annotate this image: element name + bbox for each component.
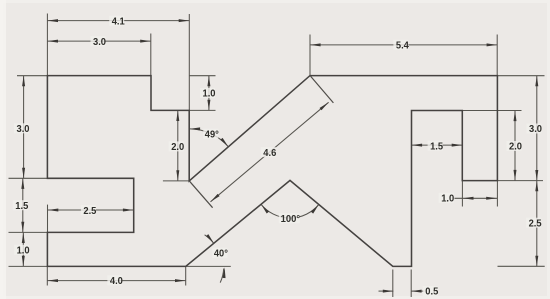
dim line 4.1	[47, 20, 189, 22]
arrows 40 deg	[206, 234, 215, 244]
ext line bottom right horizontal for 2.5	[498, 265, 545, 267]
ext line top left horizontal for left 3.0	[17, 75, 47, 77]
arrows 3.0 right	[535, 76, 538, 87]
ext line x=189 for 4.1	[188, 14, 190, 110]
ext tick for 2.0 step bottom	[163, 180, 189, 182]
svg-text:1.0: 1.0	[203, 89, 216, 100]
dim line 1.0 right	[455, 197, 498, 199]
dim line 4.0	[47, 280, 185, 282]
arrows 4.1	[47, 19, 58, 22]
ext line mid right horizontal for 3.0/2.5	[498, 180, 544, 182]
svg-text:0.5: 0.5	[425, 287, 438, 298]
arrows 1.0 right	[463, 197, 474, 200]
svg-text:2.0: 2.0	[509, 142, 522, 153]
dim line 1.0 left	[22, 232, 24, 266]
arrows 4.0	[47, 279, 58, 282]
ext line left slot bottom	[9, 231, 48, 233]
ext line x=310 for 5.4	[309, 35, 311, 76]
dim line 1.0 step	[208, 76, 210, 111]
ext line below notch for right 1.0	[461, 181, 463, 207]
dim line 0.5 left segment	[379, 290, 394, 292]
svg-text:1.0: 1.0	[17, 246, 30, 257]
ext line right of V corner for 40 deg	[186, 265, 231, 267]
svg-text:2.5: 2.5	[529, 218, 542, 229]
arrows 4.6	[210, 194, 220, 203]
dim line 2.0 right	[514, 111, 516, 181]
svg-text:1.5: 1.5	[430, 141, 443, 152]
arrows 3.0 top	[47, 40, 58, 43]
dim arc 100 deg	[261, 204, 319, 218]
dim line 4.6	[211, 102, 329, 202]
dim line 3.0 top	[47, 40, 150, 42]
svg-text:1.5: 1.5	[15, 201, 28, 212]
svg-text:2.0: 2.0	[171, 142, 184, 153]
svg-text:3.0: 3.0	[17, 124, 30, 135]
svg-text:2.5: 2.5	[83, 206, 96, 217]
arrows 0.5	[383, 290, 394, 293]
dim line 3.0 right	[536, 76, 538, 181]
dim line 3.0 left	[23, 76, 25, 179]
ext line 0.5 right	[410, 270, 412, 298]
svg-text:49°: 49°	[205, 130, 219, 141]
ext line x=151 for top 3.0	[150, 34, 152, 76]
ext line step top for 1.0	[190, 75, 216, 77]
ext line notch top for right 2.0	[462, 110, 521, 112]
ext line left slot top	[9, 177, 48, 179]
dim line 2.5 right	[536, 181, 538, 267]
arrows 2.0 right	[514, 111, 517, 122]
ext line 0.5 left	[392, 270, 394, 298]
dim line 5.4	[310, 44, 497, 46]
ext line 4.6 lower (perpendicular)	[190, 181, 213, 207]
dim line 1.5 left	[22, 178, 24, 232]
arrows 3.0 left	[22, 76, 25, 87]
dim line 1.5 right	[412, 144, 463, 146]
arrows 1.5 right	[412, 144, 423, 147]
arrows 1.0 step	[207, 76, 210, 87]
svg-text:100°: 100°	[281, 214, 301, 225]
arrows 100 deg	[260, 203, 269, 213]
dim arc 40 deg upper	[205, 235, 214, 243]
arrows 1.0 left	[22, 232, 25, 243]
svg-text:4.6: 4.6	[263, 148, 276, 159]
arrows 2.0 step	[176, 110, 179, 121]
svg-text:4.0: 4.0	[110, 276, 123, 287]
arrows 5.4	[310, 43, 321, 46]
dim arc 40 deg lower	[220, 269, 224, 283]
dim arc 49 deg	[190, 129, 229, 147]
ext line left vertical for 4.1/3.0	[46, 14, 48, 76]
ext line below V left end for 4.0	[185, 266, 187, 285]
dim line 0.5 right segment	[411, 290, 425, 292]
svg-text:1.0: 1.0	[441, 194, 454, 205]
ext line right edge for right 1.0	[496, 181, 498, 207]
ext line bottom left horizontal	[9, 265, 48, 267]
ext line step bottom for 1.0	[189, 109, 215, 111]
arrows 1.5 left	[21, 178, 24, 189]
dim line 2.5 left slot	[48, 209, 134, 211]
svg-text:40°: 40°	[214, 249, 228, 260]
part outline	[47, 76, 497, 267]
arrows 2.5 left slot	[48, 209, 59, 212]
ext line 4.6 upper (perpendicular)	[310, 76, 333, 103]
svg-text:3.0: 3.0	[529, 124, 542, 135]
ext line for 2.5 slot left	[47, 205, 49, 233]
svg-text:5.4: 5.4	[396, 41, 409, 52]
ext line x=497 for 5.4	[496, 35, 498, 76]
dim line 2.0 step	[177, 110, 179, 180]
svg-text:4.1: 4.1	[112, 17, 125, 28]
ext line top right horizontal for right 3.0	[498, 75, 545, 77]
arrows 49 deg	[190, 127, 201, 130]
svg-text:3.0: 3.0	[93, 37, 106, 48]
arrows 2.5 right	[535, 181, 538, 192]
ext line below bottom left corner for 4.0	[46, 266, 48, 285]
